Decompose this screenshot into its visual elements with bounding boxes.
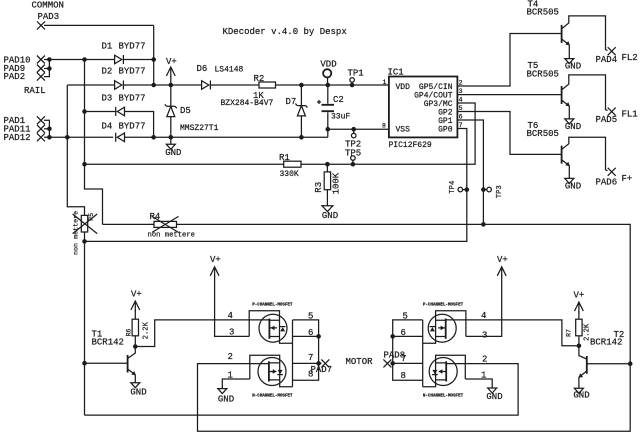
wire PAD1 stub (44, 120, 49, 137)
mosfet left top box (249, 311, 292, 343)
svg-text:7: 7 (401, 354, 406, 364)
wire D3 anode right corner down (125, 112, 154, 138)
svg-text:D7: D7 (286, 97, 297, 107)
wire right bridge pin4 to T2 base (466, 320, 579, 346)
wire PAD9 stub (44, 68, 49, 70)
junction dot T1 base (82, 361, 87, 366)
svg-text:D3: D3 (102, 93, 113, 103)
svg-text:GP0: GP0 (438, 125, 453, 134)
svg-text:D5: D5 (180, 106, 191, 116)
wire D1 cathode (123, 59, 153, 61)
svg-text:GND: GND (573, 390, 589, 400)
ground left bridge (218, 389, 227, 394)
svg-text:D1: D1 (102, 42, 113, 52)
junction dot left bridge pin7 (316, 361, 321, 366)
capacitor C2 polarity plus (317, 100, 321, 104)
svg-text:GND: GND (165, 148, 181, 158)
svg-text:PAD5: PAD5 (596, 115, 618, 125)
wire GP0 down and left (85, 129, 467, 242)
svg-text:GND: GND (322, 211, 338, 221)
junction dot T2 base (577, 344, 582, 349)
junction dot V+ rail (169, 83, 174, 88)
testpoint TP4 (458, 187, 467, 192)
svg-text:TP4: TP4 (449, 181, 457, 194)
svg-text:BCR505: BCR505 (527, 69, 559, 79)
wire D4 anode row to D7 column (125, 136, 328, 138)
svg-text:PAD7: PAD7 (311, 365, 333, 375)
testpoint TP3 (483, 187, 491, 192)
ground below D5 (166, 137, 175, 149)
resistor R5 non mettere (73, 214, 98, 415)
svg-text:GND: GND (565, 62, 581, 72)
wire right bridge pin1 to ground (465, 379, 492, 388)
svg-text:D4: D4 (102, 122, 113, 132)
svg-text:BYD77: BYD77 (119, 42, 146, 52)
pad PAD8 (383, 359, 392, 367)
junction dot T1 collector (133, 344, 138, 349)
junction dot TP2 (351, 127, 356, 132)
svg-text:V+: V+ (131, 290, 142, 300)
wire C2 node to D4 row (327, 129, 329, 137)
svg-text:R5: R5 (88, 213, 95, 221)
junction dot R1 row left (82, 162, 87, 167)
svg-text:V+: V+ (574, 291, 585, 301)
mosfet right bottom box (423, 355, 466, 387)
resistor R6 (132, 319, 138, 346)
pad PAD1 (37, 116, 45, 124)
svg-text:TP5: TP5 (345, 148, 361, 158)
svg-text:BCR142: BCR142 (92, 338, 124, 348)
svg-text:D2: D2 (102, 67, 113, 77)
power V+ left bridge (210, 267, 249, 337)
junction dot TP1 rail (350, 83, 355, 88)
svg-text:P-CHANNEL-MOSFET: P-CHANNEL-MOSFET (252, 303, 293, 307)
svg-text:N-CHANNEL-MOSFET: N-CHANNEL-MOSFET (252, 394, 293, 398)
svg-text:3: 3 (459, 88, 463, 95)
op-amp U1 IC1 box PIC12F629 (389, 77, 458, 138)
wire left bridge output connector (292, 320, 294, 387)
svg-text:GND: GND (130, 388, 146, 398)
svg-text:5: 5 (403, 311, 408, 321)
transistor Q T5 (562, 75, 608, 119)
svg-text:V+: V+ (497, 255, 508, 265)
junction dot D7 bottom (299, 135, 304, 140)
junction dot VDD rail (326, 83, 331, 88)
wire R1 row left (85, 163, 284, 165)
svg-text:MMSZ27T1: MMSZ27T1 (180, 124, 219, 133)
pad PAD5 (608, 108, 616, 116)
wire GP4 to T5 base (457, 94, 561, 96)
diode D1 (115, 55, 124, 64)
junction dot left bridge pin6 (316, 334, 321, 339)
wire R2 to IC1 VDD pin (276, 84, 389, 86)
junction dot T2 collector (628, 361, 633, 366)
wire GP1 down (457, 120, 483, 224)
svg-text:PIC12F629: PIC12F629 (389, 141, 432, 150)
svg-text:VSS: VSS (396, 125, 411, 134)
wire PAD3 to node column (44, 24, 154, 26)
svg-text:non mettere: non mettere (73, 211, 81, 255)
svg-text:F+: F+ (622, 174, 633, 184)
svg-text:PAD3: PAD3 (38, 12, 60, 22)
pad PAD9 (37, 65, 45, 73)
wire PAD10 row to D1 (44, 59, 115, 61)
junction dot rail bracket top (47, 57, 52, 62)
wire GP2 to T6 base (457, 112, 561, 155)
svg-text:D6: D6 (197, 64, 208, 74)
svg-text:2: 2 (228, 352, 233, 362)
pad PAD2 (37, 73, 45, 81)
svg-text:BCR505: BCR505 (527, 129, 559, 139)
power V+ right bridge (466, 267, 506, 337)
svg-text:FL2: FL2 (622, 53, 638, 63)
wire T1 collector to bridge pin4 row (135, 320, 249, 347)
svg-text:PAD2: PAD2 (4, 72, 26, 82)
svg-text:KDecoder v.4.0 by Despx: KDecoder v.4.0 by Despx (223, 27, 347, 37)
resistor R2 (259, 82, 276, 88)
ground T4 (565, 59, 574, 64)
junction dot C2 bottom (326, 127, 331, 132)
junction dot pad bracket bottom (47, 135, 52, 140)
ground T2 (574, 388, 583, 393)
svg-text:PAD12: PAD12 (4, 133, 31, 143)
wire GP5 to T4 base (457, 34, 561, 87)
svg-text:8: 8 (382, 123, 386, 130)
resistor R7 (576, 319, 582, 346)
svg-text:4: 4 (459, 97, 463, 104)
testpoint TP5 (351, 156, 356, 165)
svg-text:6: 6 (401, 328, 406, 338)
diode D4 (116, 133, 125, 142)
svg-text:100K: 100K (332, 172, 342, 194)
svg-text:1: 1 (383, 79, 387, 86)
wire right bridge input pins (393, 320, 423, 380)
wire D3 cathode left (85, 111, 116, 113)
wire PAD12 row to D4 (44, 136, 113, 138)
svg-text:R6: R6 (125, 329, 132, 337)
junction dot D3 row (82, 109, 87, 114)
wire R1 row right to GP3 riser (301, 103, 475, 164)
testpoint TP2 (351, 129, 356, 138)
svg-text:BCR142: BCR142 (590, 338, 622, 348)
resistor R3 (324, 164, 330, 206)
svg-text:GND: GND (218, 395, 234, 405)
junction dot D7 top (299, 83, 304, 88)
svg-text:V+: V+ (210, 255, 221, 265)
svg-text:C2: C2 (333, 95, 344, 105)
svg-text:TP3: TP3 (496, 185, 504, 198)
wire PAD2 stub (44, 60, 49, 77)
svg-text:GND: GND (565, 181, 581, 191)
junction dot PAD12 row at D2 column (65, 135, 70, 140)
svg-text:TP1: TP1 (348, 69, 364, 79)
svg-text:BYD77: BYD77 (119, 93, 146, 103)
wire left vertical bus from PAD10 row (85, 60, 103, 225)
junction dot pad bracket mid (47, 127, 52, 132)
svg-text:BYD77: BYD77 (119, 67, 146, 77)
mosfet left top circle (249, 314, 287, 342)
wire right bridge input connector (422, 320, 424, 387)
svg-text:N-CHANNEL-MOSFET: N-CHANNEL-MOSFET (423, 394, 464, 398)
svg-text:LS4148: LS4148 (215, 65, 244, 74)
ground T5 (565, 119, 574, 124)
junction dot GP0 TP4 (465, 187, 470, 192)
svg-text:GND: GND (565, 122, 581, 132)
wire D2 column down to R5 (67, 85, 84, 215)
mosfet left bottom circle (250, 358, 286, 386)
pad PAD6 (608, 168, 616, 176)
svg-text:GND: GND (486, 392, 502, 402)
junction dot GP0 row left end (82, 239, 87, 244)
wire PAD11 stub (44, 128, 49, 130)
zener diode D7 (295, 85, 307, 137)
svg-text:BYD77: BYD77 (119, 122, 146, 132)
svg-text:4: 4 (228, 311, 233, 321)
diode D2 (115, 81, 124, 90)
transistor Q T6 (562, 137, 608, 178)
svg-text:BZX284-B4V7: BZX284-B4V7 (221, 99, 274, 108)
junction dot right bridge pin6 (390, 334, 395, 339)
junction dot D3 column on D4 row (151, 135, 156, 140)
svg-text:FL1: FL1 (622, 109, 638, 119)
pad PAD3 (37, 21, 45, 29)
ground T1 (131, 383, 140, 388)
junction dot R3 top (325, 162, 330, 167)
svg-text:BCR505: BCR505 (527, 8, 559, 18)
pad PAD11 (37, 125, 45, 133)
wire bottom row to right bridge pin2 (85, 364, 519, 416)
pad PAD7 (319, 359, 330, 367)
junction dot D2 cathode (151, 83, 156, 88)
wire vertical common column (153, 25, 155, 85)
wire long row GP1 (103, 224, 631, 431)
transistor Q T4 (562, 16, 608, 59)
zener diode D5 (165, 85, 177, 137)
diode D6 (202, 81, 211, 90)
wire VSS row (328, 128, 389, 130)
svg-text:COMMON: COMMON (32, 1, 64, 11)
junction dot TP5 (351, 162, 356, 167)
capacitor C2 (322, 85, 335, 129)
wire D6 cathode to R2 (210, 84, 259, 86)
junction dot GP1 long row (481, 222, 486, 227)
mosfet right top circle (428, 314, 466, 342)
svg-text:330K: 330K (280, 170, 299, 179)
ground below R3 (322, 206, 333, 212)
transistor Q T1 (85, 347, 136, 383)
supply VDD circle (323, 69, 331, 85)
svg-text:33uF: 33uF (331, 113, 350, 122)
wire left bridge pin1 to ground (222, 379, 250, 389)
svg-text:7: 7 (308, 353, 313, 363)
svg-text:R7: R7 (565, 329, 572, 337)
testpoint TP1 (350, 78, 355, 85)
svg-text:3: 3 (229, 327, 234, 337)
mosfet right bottom circle (429, 358, 465, 386)
power V+ above R6 (131, 301, 140, 319)
junction dot D1 cathode (151, 57, 156, 62)
svg-text:V+: V+ (166, 57, 177, 67)
svg-text:R3: R3 (314, 182, 324, 193)
svg-text:VDD: VDD (320, 60, 336, 70)
svg-text:non mettere: non mettere (148, 232, 195, 240)
svg-text:2.2K: 2.2K (142, 321, 150, 339)
mosfet right top box (423, 311, 466, 343)
wire left bridge output pins (293, 320, 319, 380)
resistor R4 crossed (152, 216, 179, 232)
pad PAD10 (37, 56, 45, 64)
resistor R1 (284, 161, 301, 167)
power V+ above R7 (575, 302, 584, 319)
junction dot GP1 TP3 (481, 187, 486, 192)
svg-text:MOTOR: MOTOR (346, 357, 374, 367)
power V+ above rail (166, 67, 175, 85)
wire D2 cathode to V+ rail (123, 84, 201, 86)
svg-text:2: 2 (482, 355, 487, 365)
svg-text:P-CHANNEL-MOSFET: P-CHANNEL-MOSFET (423, 304, 464, 308)
mosfet left bottom box (250, 355, 293, 387)
junction dot PAD10 row (82, 57, 87, 62)
ground right bridge (488, 388, 497, 393)
diode D3 (116, 107, 125, 116)
svg-text:PAD4: PAD4 (596, 55, 618, 65)
transistor Q T2 (578, 346, 630, 389)
ground T6 (565, 178, 574, 183)
svg-text:VDD: VDD (396, 83, 411, 92)
junction dot right bridge pin7 (390, 361, 395, 366)
pad PAD12 (37, 133, 45, 141)
svg-text:RAIL: RAIL (24, 86, 46, 96)
pad PAD4 (608, 47, 616, 55)
svg-text:8: 8 (401, 371, 406, 381)
svg-text:3: 3 (482, 330, 487, 340)
wire D2 anode from left corner (67, 84, 114, 86)
junction dot D5 bottom (169, 135, 174, 140)
junction dot rail bracket mid (47, 66, 52, 71)
svg-text:PAD6: PAD6 (596, 177, 618, 187)
